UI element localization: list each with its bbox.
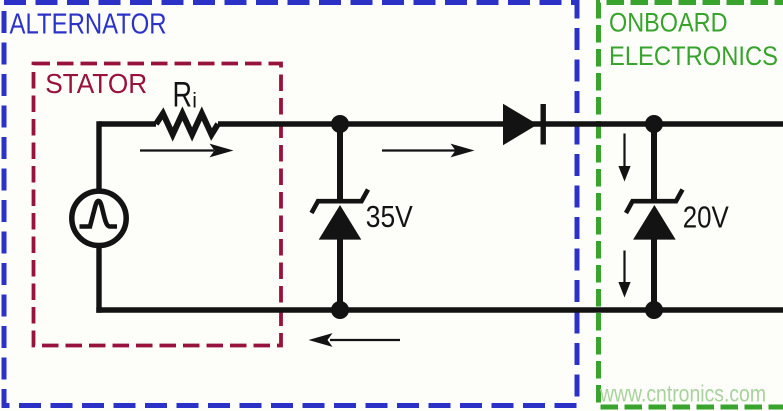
svg-text:ELECTRONICS: ELECTRONICS: [609, 41, 778, 71]
svg-text:ALTERNATOR: ALTERNATOR: [10, 9, 167, 41]
svg-text:ONBOARD: ONBOARD: [609, 7, 728, 37]
svg-text:35V: 35V: [366, 200, 414, 234]
svg-text:20V: 20V: [683, 201, 730, 235]
svg-text:STATOR: STATOR: [45, 68, 147, 99]
svg-text:www.cntronics.com: www.cntronics.com: [599, 381, 766, 407]
svg-text:i: i: [192, 90, 197, 113]
